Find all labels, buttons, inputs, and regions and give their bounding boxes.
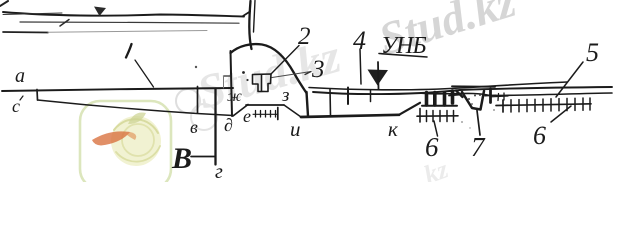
- downstream bed line L3: [421, 93, 612, 96]
- svg-text:г: г: [215, 161, 223, 182]
- sheet pile: [214, 89, 216, 165]
- under-weir down slope: [284, 105, 301, 117]
- svg-text:к: к: [388, 117, 398, 141]
- spillway toe drop: [307, 92, 309, 116]
- leader of 3: [272, 72, 311, 78]
- joint vertical x370: [370, 90, 372, 102]
- blanket underside slope: [38, 100, 234, 116]
- pit dots: [468, 98, 470, 100]
- svg-text:е: е: [243, 106, 251, 126]
- watermark logo rounded frame: [80, 101, 171, 189]
- under-weir hatch base: [253, 113, 278, 115]
- ground line upstream: [2, 88, 233, 91]
- svg-text:В: В: [171, 142, 192, 175]
- connector В to pile: [191, 156, 215, 158]
- under-weir drain ticks: [255, 111, 257, 118]
- downstream water line L1: [309, 82, 567, 90]
- cross ticks right of pit: [497, 94, 500, 101]
- svg-text:7: 7: [471, 132, 486, 162]
- dark band above pit: [452, 85, 495, 88]
- watermark logo leaf: [128, 112, 146, 124]
- dots near box: [242, 71, 245, 74]
- leader of 7: [477, 111, 480, 136]
- riprap line right: [496, 104, 591, 106]
- svg-text:и: и: [290, 117, 301, 141]
- svg-text:5: 5: [586, 38, 599, 67]
- pit outline: [462, 91, 484, 110]
- leader of 4: [360, 49, 361, 84]
- svg-text:з: з: [281, 85, 289, 106]
- leader of 6 right: [551, 106, 571, 122]
- post right of pit: [489, 89, 492, 103]
- watermark logo orange swirl: [92, 131, 130, 145]
- svg-text:∂: ∂: [224, 115, 233, 135]
- UNB underline: [379, 54, 427, 58]
- drain bottom line: [422, 105, 457, 107]
- svg-text:с: с: [12, 96, 20, 116]
- under-weir drain line: [246, 104, 284, 106]
- cutoff tick at start of blanket: [36, 90, 39, 101]
- gate stem: [249, 1, 251, 49]
- scan specks: [461, 121, 463, 123]
- slash on W2: [60, 20, 69, 27]
- leader of 6 left: [434, 121, 438, 136]
- watermark faint circles: [176, 89, 200, 113]
- svg-text:6: 6: [533, 121, 546, 150]
- leader of 5: [556, 62, 583, 97]
- upstream water line W1: [3, 12, 244, 17]
- svg-text:а: а: [15, 65, 25, 87]
- downstream water line L2: [313, 87, 612, 94]
- watermark logo ball: [111, 116, 161, 166]
- joint vertical x348: [347, 88, 349, 105]
- svg-text:6: 6: [425, 132, 439, 162]
- label 1: [126, 44, 132, 58]
- riprap ticks under drain: [419, 109, 421, 123]
- drain bars: [425, 93, 429, 106]
- basin step up: [399, 103, 420, 115]
- gate box in weir: [253, 74, 272, 92]
- vertical joint v1: [197, 87, 199, 114]
- riprap ticks right: [502, 100, 504, 112]
- drain end tick: [277, 108, 279, 120]
- joint vertical x330: [329, 90, 332, 117]
- basin floor: [301, 115, 399, 117]
- svg-text:2: 2: [298, 23, 311, 50]
- downstream water level mark: [368, 70, 389, 86]
- leader of 2: [271, 46, 299, 75]
- corner mark top-left: [0, 1, 8, 6]
- upstream water line end hook: [243, 12, 250, 17]
- svg-text:в: в: [190, 117, 198, 137]
- upstream water line W2: [20, 22, 239, 23]
- leader of 1: [135, 60, 154, 87]
- riprap line under drain: [417, 115, 458, 117]
- weir upstream face: [231, 51, 233, 116]
- upstream water line W3: [3, 31, 48, 34]
- dot above v1: [195, 66, 197, 68]
- upstream water level mark: [94, 7, 106, 17]
- weir crest ogee: [231, 44, 307, 93]
- svg-text:3: 3: [311, 56, 325, 83]
- ledge on upstream face: [224, 75, 232, 77]
- connector drain to pit: [449, 95, 461, 96]
- under-weir rise: [233, 105, 248, 117]
- svg-text:ж: ж: [227, 88, 242, 105]
